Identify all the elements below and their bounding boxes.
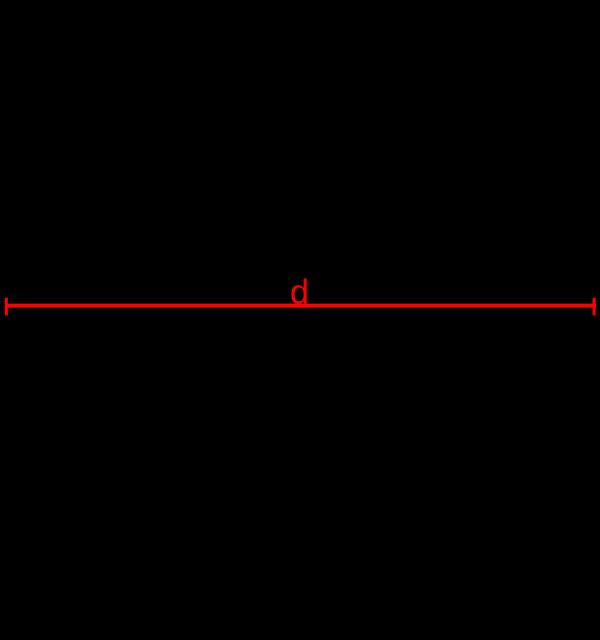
svg-text:d: d	[290, 274, 309, 312]
